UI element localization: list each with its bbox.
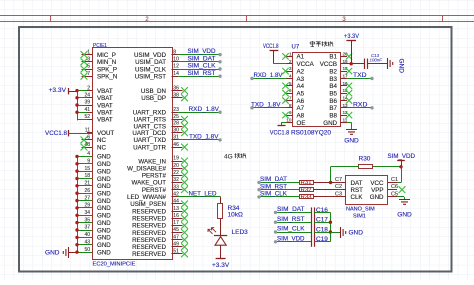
pin 3 MIN_N (left) — [81, 57, 117, 67]
svg-text:32: 32 — [173, 177, 179, 183]
svg-text:DAT: DAT — [351, 180, 363, 187]
pin 2 VBAT (left) — [77, 85, 113, 95]
svg-text:45: 45 — [173, 227, 179, 233]
svg-text:LED_WWAN#: LED_WWAN# — [127, 194, 167, 201]
svg-text:USB_DN: USB_DN — [141, 88, 166, 95]
pin 49 RESERVED (right) — [132, 242, 188, 252]
wire U7 B3 to net TXD — [347, 72, 374, 80]
pin 52 VBAT (left) — [77, 114, 113, 124]
svg-text:GND: GND — [97, 235, 111, 242]
wire C16 to ground rail — [314, 212, 330, 214]
svg-text:2: 2 — [289, 59, 292, 64]
junction GND bus — [75, 169, 78, 172]
pin 37 GND (left) — [77, 225, 111, 235]
pin 20 W_DISABLE# (right) — [127, 163, 188, 173]
svg-text:B8: B8 — [329, 113, 337, 120]
svg-text:RESERVED: RESERVED — [132, 251, 166, 258]
pin 30 UART_DCD (right) — [132, 127, 187, 137]
svg-text:48: 48 — [84, 142, 90, 148]
svg-text:+3.3V: +3.3V — [344, 33, 360, 40]
U7 pin 4 A3 — [287, 73, 305, 82]
svg-text:2: 2 — [87, 85, 90, 91]
junction VBAT — [75, 96, 78, 99]
svg-text:R31: R31 — [301, 180, 312, 186]
power port +3.3V (U7 VCCB) — [344, 33, 360, 64]
wire R33 to SIM1 — [313, 196, 340, 198]
svg-text:NANO_SIM: NANO_SIM — [346, 207, 375, 213]
pin 32 WAKE_OUT (right) — [132, 177, 188, 187]
wire C13 to ground — [367, 63, 387, 65]
svg-text:15: 15 — [84, 166, 90, 172]
resistor R32 — [300, 187, 314, 193]
svg-text:B3: B3 — [329, 76, 337, 83]
svg-text:VCC1.8: VCC1.8 — [270, 130, 290, 137]
wire rail to GND — [330, 232, 340, 234]
svg-text:GND: GND — [97, 176, 111, 183]
svg-text:27: 27 — [84, 195, 90, 201]
pin 7 SPK_N (left) — [81, 71, 118, 81]
svg-text:UART_DCD: UART_DCD — [132, 130, 166, 137]
pin 9 GND (left) — [77, 159, 111, 169]
U7 pin 11 GND — [323, 118, 347, 127]
svg-text:RS0108YQ20: RS0108YQ20 — [291, 130, 332, 137]
sheet border red ruler lines — [0, 16, 474, 22]
svg-text:SIM_CLK: SIM_CLK — [188, 63, 216, 70]
svg-text:GND: GND — [323, 120, 337, 127]
svg-text:R33: R33 — [301, 195, 312, 201]
junction GND bus — [75, 214, 78, 217]
svg-text:RXD: RXD — [353, 101, 367, 108]
ground symbol GND (C13) — [388, 58, 405, 73]
svg-text:SIM1: SIM1 — [353, 213, 366, 219]
wire cap ground rail — [330, 212, 332, 241]
ground symbol GND (caps) — [341, 227, 364, 238]
svg-text:A4: A4 — [297, 83, 305, 90]
wire R31 to SIM1 — [313, 182, 340, 184]
capacitor C13 100nF — [365, 53, 383, 69]
wire C17 to ground rail — [314, 222, 330, 224]
pin 50 GND (left) — [77, 247, 111, 257]
power port SIM_VDD — [388, 153, 416, 167]
svg-text:RESERVED: RESERVED — [132, 216, 166, 223]
junction GND bus — [75, 250, 78, 253]
wire C19 to ground rail — [314, 241, 330, 243]
resistor R33 — [300, 195, 314, 201]
SIM1 pin C1 VCC — [370, 177, 398, 187]
junction cap rail C17 — [329, 221, 332, 224]
pin 42 LED_WWAN# (right) — [127, 192, 179, 202]
svg-text:SIM_RST: SIM_RST — [277, 216, 305, 223]
svg-text:MIC_P: MIC_P — [97, 52, 116, 59]
junction cap rail C18 — [329, 230, 332, 233]
svg-text:3: 3 — [87, 57, 90, 63]
pin 41 VBAT (left) — [77, 107, 113, 117]
svg-text:RXD_1.8V: RXD_1.8V — [189, 106, 220, 113]
svg-text:VPP: VPP — [371, 187, 383, 194]
pin 10 USIM_DAT (right) — [135, 57, 179, 67]
U7 pin 12 B8 — [329, 110, 352, 119]
svg-text:8: 8 — [173, 49, 176, 55]
junction GND bus — [75, 221, 78, 224]
svg-text:USIM_DAT: USIM_DAT — [135, 59, 166, 66]
svg-text:GND: GND — [370, 194, 384, 201]
pin 38 USB_DP (right) — [141, 93, 188, 103]
svg-text:6: 6 — [87, 135, 90, 141]
svg-text:9: 9 — [87, 159, 90, 165]
connector SIM1 NANO_SIM body — [346, 176, 388, 205]
wire SIM_VDD to NANO_SIM VCC — [397, 167, 402, 183]
wire net SIM_CLK to R33 — [257, 191, 299, 199]
svg-text:RESERVED: RESERVED — [132, 237, 166, 244]
pin 48 NC (left) — [81, 142, 107, 152]
svg-text:C1: C1 — [391, 177, 398, 183]
svg-text:A7: A7 — [297, 105, 305, 112]
svg-text:VCCA: VCCA — [297, 61, 315, 68]
svg-text:WAKE_IN: WAKE_IN — [138, 158, 166, 165]
capacitor C16 — [312, 207, 329, 218]
wire net RXD_1.8V to U7 A3 — [250, 72, 286, 80]
U7 pin 20 B1 — [329, 51, 352, 60]
svg-text:GND: GND — [97, 220, 111, 227]
svg-text:C6: C6 — [391, 184, 398, 190]
capacitor C17 — [312, 217, 329, 228]
svg-text:PERST#: PERST# — [142, 173, 167, 180]
wire VCCA to VCC1.8 — [274, 63, 293, 65]
junction VBAT — [75, 111, 78, 114]
svg-text:RESERVED: RESERVED — [132, 223, 166, 230]
svg-text:LED3: LED3 — [232, 229, 249, 236]
junction VBAT — [75, 89, 78, 92]
svg-text:A2: A2 — [297, 68, 305, 75]
svg-text:B2: B2 — [329, 68, 337, 75]
wire net SIM_DAT to C16 — [274, 206, 311, 214]
svg-text:24: 24 — [84, 93, 90, 99]
svg-text:10: 10 — [286, 118, 292, 123]
pin 35 GND (left) — [77, 217, 111, 227]
pin 27 GND (left) — [77, 195, 111, 205]
svg-text:GND: GND — [97, 198, 111, 205]
svg-text:49: 49 — [173, 242, 179, 248]
pin 46 UART_DTR (right) — [133, 142, 188, 152]
power port VCC1.8 (left) — [45, 130, 92, 137]
svg-text:U7: U7 — [292, 45, 300, 51]
svg-text:SIM_RST: SIM_RST — [260, 183, 287, 190]
svg-text:A1: A1 — [297, 54, 305, 61]
junction GND bus — [75, 177, 78, 180]
U7 pin 8 A7 — [287, 103, 305, 112]
pin 40 GND (left) — [77, 232, 111, 242]
U7 pin 18 B2 — [329, 66, 352, 75]
svg-text:41: 41 — [84, 107, 90, 113]
svg-text:35: 35 — [84, 217, 90, 223]
svg-text:SIM_RST: SIM_RST — [188, 70, 216, 77]
svg-text:A5: A5 — [297, 90, 305, 97]
svg-text:VCC1.8: VCC1.8 — [263, 43, 279, 50]
pin 39 VBAT (left) — [77, 100, 113, 110]
svg-text:PERST#: PERST# — [142, 187, 167, 194]
wire net SIM_CLK — [178, 63, 222, 71]
svg-text:40: 40 — [84, 232, 90, 238]
junction GND bus — [75, 228, 78, 231]
wire net SIM_RST to C17 — [274, 216, 311, 224]
U7 pin 1 A1 — [282, 51, 304, 60]
pin 12 USIM_CLK (right) — [135, 64, 179, 74]
svg-text:B7: B7 — [329, 105, 337, 112]
capacitor C19 — [312, 236, 329, 247]
svg-text:USIM_CLK: USIM_CLK — [135, 66, 167, 73]
capacitor C18 — [312, 226, 329, 237]
section title level-shift (Chinese) — [310, 41, 333, 47]
svg-text:VBAT: VBAT — [97, 88, 113, 95]
pin 16 RESERVED (right) — [132, 213, 188, 223]
U7 pin 17 B3 — [329, 73, 348, 82]
svg-text:5: 5 — [87, 64, 90, 70]
svg-text:USB_DP: USB_DP — [141, 95, 166, 102]
U7 pin 3 A2 — [282, 66, 304, 75]
svg-text:MIN_N: MIN_N — [97, 59, 116, 66]
svg-text:VCC1.8: VCC1.8 — [45, 130, 67, 137]
junction SIM_VDD/C1 — [399, 165, 402, 168]
pin 44 USIM_PSEN (right) — [130, 199, 188, 209]
junction GND bus — [75, 162, 78, 165]
connector PCIE1 body — [93, 48, 173, 260]
svg-text:USIM_PSEN: USIM_PSEN — [130, 201, 166, 208]
svg-text:5: 5 — [289, 81, 292, 86]
svg-text:VBAT: VBAT — [97, 117, 113, 124]
U7 pin 6 A5 — [282, 88, 304, 97]
SIM1 pin C5 GND — [370, 191, 398, 201]
svg-text:SPK_P: SPK_P — [97, 66, 117, 73]
svg-text:20: 20 — [173, 163, 179, 169]
svg-text:RESERVED: RESERVED — [132, 244, 166, 251]
wire VCCB node — [347, 63, 365, 65]
svg-text:TXD: TXD — [353, 72, 367, 79]
svg-text:EC20_MINIPCIE: EC20_MINIPCIE — [93, 262, 136, 268]
wire GND bus — [69, 156, 78, 252]
resistor R34 10k — [218, 204, 243, 219]
power port VCC1.8 (U7 top) — [263, 43, 279, 64]
wire net SIM_VDD — [178, 48, 222, 56]
U7 pin 5 A4 — [282, 81, 304, 90]
svg-text:8: 8 — [289, 103, 292, 108]
junction VCCB/C13 — [350, 62, 353, 65]
svg-text:6: 6 — [289, 88, 292, 93]
svg-text:36: 36 — [173, 85, 179, 91]
svg-text:RESERVED: RESERVED — [132, 230, 166, 237]
wire net SIM_DAT — [178, 55, 222, 63]
svg-text:11: 11 — [85, 127, 90, 133]
svg-text:17: 17 — [343, 73, 349, 78]
svg-text:UART_RXD: UART_RXD — [133, 110, 167, 117]
svg-text:B5: B5 — [329, 90, 337, 97]
wire R32 to SIM1 — [313, 189, 340, 191]
wire LED3 to +3.3V — [220, 245, 222, 259]
U7 pin 19 VCCB — [320, 59, 348, 68]
svg-text:UART_TXD: UART_TXD — [133, 137, 166, 144]
pin 18 GND (left) — [77, 173, 111, 183]
power port +3.3V (left) — [49, 87, 69, 94]
wire SIM1 GND pin C5 — [397, 197, 405, 200]
svg-text:38: 38 — [173, 93, 179, 99]
junction GND bus — [75, 199, 78, 202]
svg-text:A6: A6 — [297, 98, 305, 105]
SIM1 pin C2 RST — [335, 184, 363, 194]
svg-text:A8: A8 — [297, 113, 305, 120]
svg-text:7: 7 — [87, 71, 90, 77]
svg-text:B1: B1 — [329, 54, 337, 61]
svg-text:GND: GND — [97, 191, 111, 198]
sheet inner frame — [19, 27, 452, 272]
svg-text:52: 52 — [84, 114, 90, 120]
svg-text:VBAT: VBAT — [97, 110, 113, 117]
resistor R30 — [359, 155, 373, 168]
svg-text:VBAT: VBAT — [97, 102, 113, 109]
svg-text:NET_LED: NET_LED — [189, 190, 217, 197]
junction GND bus — [75, 236, 78, 239]
svg-text:RESERVED: RESERVED — [132, 208, 166, 215]
ground symbol GND (SIM1) — [397, 200, 412, 219]
pin 5 SPK_P (left) — [81, 64, 117, 74]
svg-text:GND: GND — [344, 137, 359, 144]
IC U7 body RS0108YQ20 — [293, 53, 341, 127]
svg-text:18: 18 — [84, 173, 90, 179]
svg-text:UART_DTR: UART_DTR — [133, 144, 166, 151]
pin 24 VBAT (left) — [77, 93, 113, 103]
svg-text:GND: GND — [97, 227, 111, 234]
wire VBAT bus — [69, 91, 78, 120]
svg-text:VBAT: VBAT — [97, 95, 113, 102]
svg-text:GND: GND — [97, 183, 111, 190]
power port +3.3V (LED) — [212, 259, 230, 270]
svg-text:GND: GND — [45, 250, 60, 257]
svg-text:A3: A3 — [297, 76, 305, 83]
U7 pin 14 B6 — [329, 96, 352, 105]
svg-text:GND: GND — [97, 249, 111, 256]
svg-text:SIM_CLK: SIM_CLK — [260, 191, 288, 198]
wire net NET_LED — [178, 190, 221, 203]
wire net SIM_VDD to C19 — [274, 235, 311, 243]
U7 pin 10 OE — [286, 118, 305, 127]
svg-text:SPK_N: SPK_N — [97, 74, 117, 81]
svg-text:28: 28 — [173, 121, 179, 127]
svg-text:47: 47 — [173, 234, 179, 240]
svg-text:11: 11 — [343, 118, 348, 123]
svg-text:SIM_DAT: SIM_DAT — [260, 176, 287, 183]
svg-text:WAKE_OUT: WAKE_OUT — [132, 180, 167, 187]
U7 pin 15 B5 — [329, 88, 352, 97]
svg-text:VCCB: VCCB — [320, 61, 337, 68]
wire R30 right to SIM_VDD — [373, 166, 401, 168]
svg-text:NC: NC — [97, 137, 106, 144]
svg-text:GND: GND — [97, 168, 111, 175]
svg-text:10kΩ: 10kΩ — [228, 212, 243, 219]
svg-text:GND: GND — [97, 154, 111, 161]
svg-text:OE: OE — [297, 120, 306, 127]
svg-text:GND: GND — [349, 230, 364, 237]
pin 26 GND (left) — [77, 188, 111, 198]
svg-text:USIM_VDD: USIM_VDD — [134, 52, 167, 59]
pin 17 RESERVED (right) — [132, 220, 188, 230]
wire U7 B7 to net RXD — [347, 101, 374, 109]
wire net SIM_RST — [178, 70, 222, 78]
wire net SIM_RST to R32 — [257, 183, 299, 191]
svg-text:C5: C5 — [391, 191, 398, 197]
svg-text:13: 13 — [173, 206, 179, 212]
LED LED3 — [208, 228, 248, 246]
svg-text:3: 3 — [289, 66, 292, 71]
pin 47 RESERVED (right) — [132, 234, 188, 244]
svg-text:+3.3V: +3.3V — [212, 262, 230, 269]
svg-text:SIM_CLK: SIM_CLK — [277, 226, 305, 233]
pin 15 GND (left) — [77, 166, 111, 176]
wire net SIM_CLK to C18 — [274, 226, 311, 234]
svg-text:26: 26 — [84, 188, 90, 194]
svg-text:C19: C19 — [316, 236, 328, 243]
pin 28 UART_CTS (right) — [133, 121, 187, 131]
svg-text:1: 1 — [289, 51, 292, 56]
SIM1 pin C6 VPP — [371, 184, 405, 194]
svg-text:GND: GND — [97, 205, 111, 212]
pin 45 RESERVED (right) — [132, 227, 188, 237]
U7 pin 2 VCCA — [287, 59, 315, 68]
svg-text:33: 33 — [173, 184, 179, 190]
svg-text:4: 4 — [87, 151, 90, 157]
wire R34 to LED3 — [220, 219, 222, 236]
svg-text:25: 25 — [173, 114, 179, 120]
pin 1 MIC_P (left) — [81, 49, 116, 59]
wire R30 left to SIM_DAT node — [331, 167, 359, 183]
wire net RXD_1.8V — [178, 106, 222, 114]
SIM1 pin C7 DAT — [335, 177, 363, 187]
junction GND bus — [75, 155, 78, 158]
pin 6 NC (left) — [81, 135, 107, 145]
SIM1 pin C3 CLK — [335, 191, 363, 201]
svg-text:GND: GND — [398, 59, 405, 74]
svg-text:TXD_1.8V: TXD_1.8V — [251, 101, 281, 108]
junction GND bus — [75, 184, 78, 187]
svg-text:W_DISABLE#: W_DISABLE# — [127, 166, 166, 173]
svg-text:GND: GND — [97, 213, 111, 220]
wire net TXD_1.8V — [178, 134, 222, 142]
svg-text:22: 22 — [173, 170, 179, 176]
svg-text:44: 44 — [173, 199, 179, 205]
svg-text:17: 17 — [173, 220, 179, 226]
svg-text:4: 4 — [289, 73, 292, 78]
U7 pin 16 B4 — [329, 81, 352, 90]
pin 14 USIM_RST (right) — [135, 71, 179, 81]
pin 33 PERST# (right) — [142, 184, 188, 194]
svg-text:R30: R30 — [359, 155, 371, 162]
svg-text:51: 51 — [173, 249, 179, 255]
svg-text:16: 16 — [173, 213, 179, 219]
svg-text:SIM_DAT: SIM_DAT — [277, 206, 305, 213]
svg-text:USIM_RST: USIM_RST — [135, 74, 167, 81]
pin 4 GND (left) — [77, 151, 111, 161]
svg-text:RST: RST — [351, 187, 364, 194]
junction VBAT — [75, 103, 78, 106]
junction GND bus — [75, 206, 78, 209]
pin 23 UART_RXD (right) — [133, 107, 179, 117]
svg-text:B6: B6 — [329, 98, 337, 105]
svg-text:SIM_VDD: SIM_VDD — [277, 235, 305, 242]
wire net SIM_DAT to R31 — [257, 176, 299, 184]
pin 51 RESERVED (right) — [132, 249, 188, 259]
pin 31 UART_TXD (right) — [133, 135, 179, 145]
pin 13 RESERVED (right) — [132, 206, 188, 216]
svg-text:TXD_1.8V: TXD_1.8V — [189, 134, 219, 141]
svg-text:B4: B4 — [329, 83, 337, 90]
svg-text:12: 12 — [173, 64, 179, 70]
